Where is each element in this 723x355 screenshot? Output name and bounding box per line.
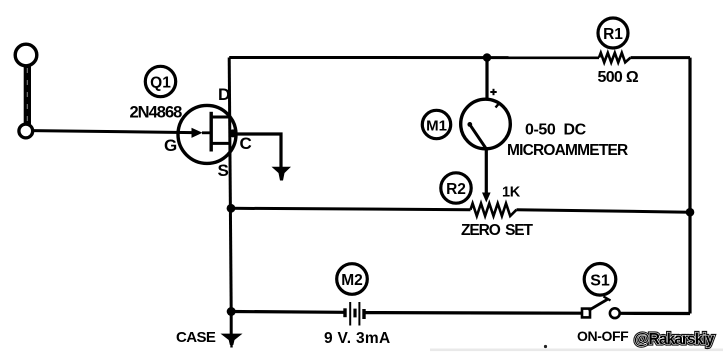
svg-text:ZERO SET: ZERO SET [461, 222, 534, 239]
node bottom left [227, 307, 236, 316]
svg-text:1K: 1K [502, 185, 521, 201]
node middle left [227, 204, 236, 213]
svg-text:2N4868: 2N4868 [130, 104, 183, 122]
svg-text:R2: R2 [446, 181, 466, 198]
svg-text:R1: R1 [603, 26, 623, 43]
wire right vertical [688, 58, 691, 314]
node top junction [483, 53, 492, 62]
meter M1 [461, 99, 511, 149]
potentiometer R2 [471, 203, 517, 216]
svg-text:C: C [240, 134, 252, 153]
wire top rail right [631, 56, 691, 59]
svg-text:S1: S1 [590, 273, 610, 290]
scan smudge [430, 349, 723, 352]
wire case lead [230, 134, 281, 168]
svg-text:9 V. 3mA: 9 V. 3mA [324, 330, 390, 347]
label R2 [441, 173, 471, 203]
transistor Q1 [178, 105, 236, 163]
svg-text:ON-OFF: ON-OFF [577, 328, 629, 344]
ground CASE [221, 312, 243, 348]
svg-text:CASE: CASE [176, 329, 216, 346]
wire bottom rail right [620, 312, 690, 315]
wire meter bottom lead (pot wiper) [485, 149, 488, 193]
probe tip [15, 44, 37, 138]
wire middle rail right [517, 210, 691, 213]
wire bottom rail middle [364, 311, 582, 315]
label S1 [584, 264, 616, 296]
wire drain-source vertical [229, 58, 231, 312]
svg-text:S: S [218, 161, 229, 180]
wire gate lead [33, 131, 193, 133]
wire top rail left [229, 56, 599, 59]
label M2 [337, 264, 368, 295]
wire middle rail left [231, 208, 471, 209]
svg-text:@Rakarskiy: @Rakarskiy [634, 331, 715, 348]
svg-text:MICROAMMETER: MICROAMMETER [507, 142, 628, 159]
svg-text:Q1: Q1 [150, 74, 171, 91]
node middle right [686, 208, 695, 217]
wire bottom rail left [231, 310, 343, 314]
scan speck [544, 345, 547, 348]
label M1 [422, 110, 450, 138]
svg-text:0-50 DC: 0-50 DC [525, 122, 587, 139]
ground (transistor case) [272, 167, 292, 181]
svg-text:M1: M1 [426, 117, 447, 134]
node C junction [229, 129, 237, 137]
switch S1 [582, 297, 620, 319]
battery M2 [345, 302, 364, 326]
label R1 [598, 18, 628, 48]
svg-text:M2: M2 [341, 272, 363, 289]
svg-text:G: G [164, 136, 177, 155]
polarity plus [490, 89, 496, 95]
resistor R1 [599, 53, 631, 63]
wire meter top lead [485, 58, 488, 100]
svg-text:D: D [218, 85, 230, 104]
label Q1 [145, 66, 175, 96]
watermark [634, 331, 715, 348]
svg-text:500 Ω: 500 Ω [598, 69, 639, 86]
